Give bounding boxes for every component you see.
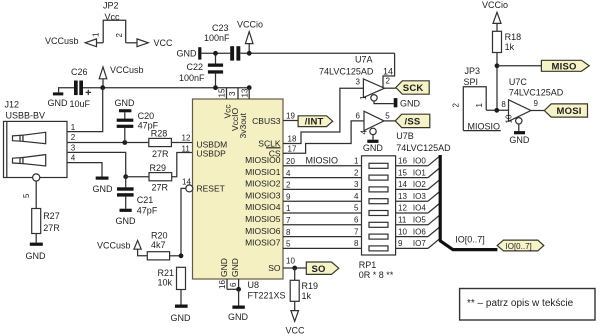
wire to U7A power bbox=[383, 53, 395, 87]
svg-text:IO3: IO3 bbox=[413, 192, 426, 201]
svg-text:9: 9 bbox=[286, 192, 291, 201]
wire SCLK to U7A bbox=[283, 88, 363, 143]
svg-text:2: 2 bbox=[71, 133, 76, 142]
svg-text:** – patrz opis w tekście: ** – patrz opis w tekście bbox=[467, 298, 574, 309]
svg-text:12: 12 bbox=[398, 204, 407, 213]
element 3 bbox=[369, 187, 388, 192]
svg-text:MIOSIO: MIOSIO bbox=[306, 156, 339, 166]
SECTION: C26 / VCCusb bbox=[48, 65, 250, 109]
svg-text:IO[0..7]: IO[0..7] bbox=[506, 242, 532, 251]
svg-text:3: 3 bbox=[356, 78, 361, 87]
svg-text:10: 10 bbox=[286, 257, 295, 266]
svg-text:VCC: VCC bbox=[286, 326, 306, 336]
svg-text:16: 16 bbox=[398, 157, 407, 166]
svg-text:13: 13 bbox=[398, 192, 407, 201]
svg-text:Vcc: Vcc bbox=[105, 12, 121, 22]
svg-text:74LVC125AD: 74LVC125AD bbox=[319, 67, 374, 77]
svg-text:MIOSIO6: MIOSIO6 bbox=[245, 226, 281, 236]
signal tag MOSI bbox=[544, 104, 587, 117]
wire MIOSIO stub bbox=[463, 130, 500, 132]
svg-text:19: 19 bbox=[286, 112, 295, 121]
svg-text:27R: 27R bbox=[152, 149, 169, 159]
svg-text:C22: C22 bbox=[187, 62, 204, 72]
usb plug symbol bottom bbox=[13, 158, 24, 164]
svg-text:8: 8 bbox=[354, 239, 359, 248]
svg-text:VCCusb: VCCusb bbox=[97, 241, 131, 251]
svg-text:15: 15 bbox=[218, 88, 227, 97]
svg-text:1k: 1k bbox=[505, 42, 515, 52]
svg-text:6: 6 bbox=[229, 282, 238, 287]
svg-text:14: 14 bbox=[398, 180, 407, 189]
signal tag MISO bbox=[541, 60, 589, 71]
pin 5 shield bbox=[33, 174, 40, 181]
svg-text:1: 1 bbox=[286, 204, 291, 213]
svg-text:100nF: 100nF bbox=[204, 33, 230, 43]
svg-text:VCCio: VCCio bbox=[237, 20, 263, 30]
svg-text:USBB-BV: USBB-BV bbox=[6, 111, 46, 121]
ground bbox=[175, 305, 188, 308]
svg-text:MIOSIO7: MIOSIO7 bbox=[245, 238, 281, 248]
svg-text:IO1: IO1 bbox=[413, 168, 426, 177]
svg-text:5: 5 bbox=[354, 204, 359, 213]
svg-text:MIOSIO4: MIOSIO4 bbox=[245, 202, 281, 212]
svg-text:1: 1 bbox=[359, 95, 368, 100]
svg-text:4k7: 4k7 bbox=[151, 240, 166, 250]
wire bbox=[172, 153, 193, 177]
svg-text:FT221XS: FT221XS bbox=[248, 291, 286, 301]
svg-text:R29: R29 bbox=[150, 163, 167, 173]
svg-text:7: 7 bbox=[286, 216, 291, 225]
SECTION: right side bbox=[452, 0, 590, 145]
element 4 bbox=[369, 199, 388, 204]
ground bbox=[53, 92, 63, 95]
svg-text:GND: GND bbox=[116, 216, 137, 226]
svg-text:SCLK: SCLK bbox=[258, 138, 281, 148]
svg-text:10: 10 bbox=[505, 114, 514, 123]
svg-text:MOSI: MOSI bbox=[557, 106, 582, 117]
svg-text:C23: C23 bbox=[212, 23, 229, 33]
svg-text:R21: R21 bbox=[158, 268, 175, 278]
svg-text:17: 17 bbox=[288, 145, 297, 154]
svg-text:RESET: RESET bbox=[197, 184, 225, 194]
VCCusb arrow left bbox=[85, 39, 96, 47]
svg-text:74LVC125AD: 74LVC125AD bbox=[509, 88, 564, 98]
SECTION: USB connector J12 bbox=[4, 100, 76, 262]
svg-text:MIOSIO0: MIOSIO0 bbox=[245, 155, 281, 165]
wire bbox=[126, 176, 149, 178]
wire bbox=[171, 142, 192, 144]
wire U7B out bbox=[384, 120, 395, 122]
resistor R21 bbox=[177, 267, 186, 289]
svg-text:JP3: JP3 bbox=[465, 66, 481, 76]
svg-text:3: 3 bbox=[71, 143, 76, 152]
svg-text:6: 6 bbox=[356, 112, 361, 121]
capacitor C22 bbox=[215, 53, 217, 63]
svg-text:3: 3 bbox=[228, 91, 237, 96]
svg-text:GND: GND bbox=[48, 98, 69, 108]
svg-text:0R * 8 **: 0R * 8 ** bbox=[359, 270, 394, 280]
svg-text:7: 7 bbox=[354, 227, 359, 236]
svg-text:14: 14 bbox=[383, 66, 393, 76]
ground bbox=[30, 243, 43, 246]
SECTION: usb data lines bbox=[67, 88, 193, 226]
svg-text:27R: 27R bbox=[152, 183, 169, 193]
bus IO[0..7] bbox=[440, 155, 497, 250]
svg-text:16: 16 bbox=[218, 280, 227, 289]
SECTION: reset chain bbox=[97, 188, 191, 323]
svg-text:100nF: 100nF bbox=[179, 73, 205, 83]
svg-text:2: 2 bbox=[354, 168, 359, 177]
svg-text:C26: C26 bbox=[71, 67, 88, 77]
svg-text:27R: 27R bbox=[43, 223, 60, 233]
svg-text:GND: GND bbox=[26, 251, 47, 261]
resistor network RP1 bbox=[362, 156, 396, 255]
svg-text:C20: C20 bbox=[138, 111, 155, 121]
wire U7C out bbox=[531, 110, 544, 112]
svg-text:47pF: 47pF bbox=[138, 121, 159, 131]
svg-text:2: 2 bbox=[386, 77, 391, 86]
junction bbox=[100, 85, 105, 90]
SECTION: top-left jumper JP2 bbox=[45, 1, 173, 48]
svg-text:5: 5 bbox=[385, 112, 390, 121]
wire jp3 to U7C bbox=[486, 109, 508, 111]
svg-text:MIOSIO: MIOSIO bbox=[468, 122, 501, 132]
VCC arrow right bbox=[137, 39, 148, 47]
svg-text:C21: C21 bbox=[137, 195, 154, 205]
SECTION: chip U8 bbox=[182, 88, 362, 336]
svg-text:9: 9 bbox=[534, 99, 539, 108]
svg-text:JP2: JP2 bbox=[103, 1, 119, 11]
ground bbox=[514, 131, 525, 134]
svg-text:1k: 1k bbox=[302, 291, 312, 301]
pin 15 Vcc bbox=[226, 88, 228, 99]
svg-text:GND: GND bbox=[230, 258, 240, 277]
svg-text:J12: J12 bbox=[5, 100, 20, 110]
IC U8 FT221XS body bbox=[193, 99, 284, 279]
capacitor C26 bbox=[74, 81, 78, 96]
svg-text:8: 8 bbox=[286, 228, 291, 237]
svg-text:3v3out: 3v3out bbox=[238, 112, 248, 138]
enable bubble pin 4 bbox=[370, 128, 376, 134]
MIOSIO wires to RP1 bbox=[283, 165, 362, 167]
svg-text:IO6: IO6 bbox=[413, 227, 426, 236]
svg-text:GND: GND bbox=[363, 143, 384, 153]
power VCC down arrow bbox=[291, 311, 299, 322]
svg-text:1: 1 bbox=[92, 32, 101, 37]
usb plug symbol top bbox=[13, 135, 24, 141]
element 1 bbox=[369, 163, 388, 168]
svg-text:20: 20 bbox=[286, 157, 295, 166]
svg-text:GND: GND bbox=[219, 258, 229, 277]
svg-text:IO4: IO4 bbox=[413, 204, 426, 213]
svg-text:5: 5 bbox=[22, 193, 31, 198]
svg-text:8: 8 bbox=[501, 100, 506, 109]
ground bbox=[232, 306, 244, 309]
wire VCCusb rail bbox=[103, 87, 250, 89]
svg-text:10: 10 bbox=[398, 227, 407, 236]
svg-text:MIOSIO5: MIOSIO5 bbox=[245, 214, 281, 224]
svg-text:USBDP: USBDP bbox=[197, 149, 227, 159]
svg-text:12: 12 bbox=[182, 134, 191, 143]
SECTION: buffers U7A U7B bbox=[283, 55, 451, 154]
enable bubble pin 10 bbox=[516, 118, 522, 124]
svg-text:R27: R27 bbox=[43, 211, 60, 221]
resistor R29 bbox=[149, 173, 172, 181]
svg-text:VCCusb: VCCusb bbox=[45, 36, 79, 46]
svg-text:2: 2 bbox=[286, 181, 291, 190]
wire VCCio rail bbox=[201, 52, 230, 54]
junction bbox=[213, 51, 218, 56]
wire bbox=[97, 42, 104, 44]
signal tag /SS bbox=[395, 114, 430, 127]
svg-text:6: 6 bbox=[354, 216, 359, 225]
svg-text:IO7: IO7 bbox=[413, 239, 426, 248]
svg-text:VCC: VCC bbox=[154, 38, 174, 48]
svg-text:11: 11 bbox=[182, 144, 191, 153]
wire VBUS pin1 bbox=[67, 88, 103, 132]
svg-text:VCCio: VCCio bbox=[482, 0, 508, 10]
svg-text:11: 11 bbox=[398, 216, 407, 225]
svg-text:VCCusb: VCCusb bbox=[110, 65, 144, 75]
capacitor C23 bbox=[230, 46, 234, 60]
svg-text:MIOSIO3: MIOSIO3 bbox=[245, 190, 281, 200]
capacitor C20 bbox=[124, 128, 126, 143]
svg-text:IO5: IO5 bbox=[413, 216, 426, 225]
svg-text:3: 3 bbox=[354, 180, 359, 189]
svg-text:SCK: SCK bbox=[403, 83, 424, 94]
svg-text:13: 13 bbox=[241, 88, 250, 97]
svg-text:4: 4 bbox=[354, 192, 359, 201]
resistor R28 bbox=[149, 138, 172, 146]
svg-text:4: 4 bbox=[286, 169, 291, 178]
svg-text:2: 2 bbox=[452, 103, 461, 108]
wire USBDM bbox=[67, 142, 149, 144]
resistor R19 bbox=[294, 268, 296, 280]
capacitor C21 bbox=[125, 177, 127, 188]
junction bbox=[122, 140, 127, 145]
ground bbox=[198, 47, 201, 59]
jumper JP2 bbox=[103, 20, 126, 43]
svg-text:U7B: U7B bbox=[396, 131, 414, 141]
svg-text:/INT: /INT bbox=[305, 117, 324, 128]
element 7 bbox=[369, 234, 388, 239]
svg-text:IO[0..7]: IO[0..7] bbox=[455, 235, 485, 245]
wire bbox=[496, 53, 498, 111]
svg-text:4: 4 bbox=[71, 154, 76, 163]
ground bbox=[120, 209, 132, 212]
svg-text:SO: SO bbox=[268, 263, 281, 273]
pin 16 GND bbox=[226, 279, 228, 289]
svg-text:2: 2 bbox=[115, 33, 124, 38]
svg-text:IO2: IO2 bbox=[413, 180, 426, 189]
wire reset bbox=[181, 188, 186, 255]
SECTION: RP1 and bus bbox=[354, 155, 544, 280]
element 8 bbox=[369, 246, 388, 251]
svg-text:R19: R19 bbox=[302, 281, 319, 291]
resistor R18 bbox=[493, 31, 502, 52]
svg-text:U8: U8 bbox=[248, 280, 260, 290]
op-amp U7B buffer bbox=[364, 111, 384, 130]
wire U7A out bbox=[385, 87, 396, 89]
svg-text:R18: R18 bbox=[505, 32, 522, 42]
bus tag IO[0..7] bbox=[497, 240, 544, 251]
svg-text:GND: GND bbox=[509, 135, 530, 145]
pin 13 3v3out bbox=[248, 88, 250, 99]
svg-text:SO: SO bbox=[312, 264, 326, 275]
pin 6 GND bbox=[238, 279, 240, 289]
svg-text:74LVC125AD: 74LVC125AD bbox=[396, 143, 451, 153]
svg-text:9: 9 bbox=[398, 239, 403, 248]
ground bbox=[96, 177, 109, 180]
power VCCusb bbox=[102, 79, 104, 88]
wire bbox=[83, 87, 103, 89]
svg-text:MIOSIO2: MIOSIO2 bbox=[245, 179, 281, 189]
svg-text:GND: GND bbox=[93, 184, 114, 194]
svg-text:CBUS3: CBUS3 bbox=[252, 116, 281, 126]
svg-text:1: 1 bbox=[475, 103, 484, 108]
wire bbox=[126, 42, 137, 44]
ground bbox=[394, 98, 398, 107]
svg-text:U7A: U7A bbox=[355, 55, 373, 65]
svg-text:GND: GND bbox=[228, 312, 249, 322]
element 5 bbox=[369, 211, 388, 216]
svg-text:/SS: /SS bbox=[405, 117, 421, 128]
svg-text:1: 1 bbox=[354, 157, 359, 166]
power VCCio bbox=[248, 44, 250, 54]
svg-text:GND: GND bbox=[177, 49, 198, 59]
signal tag SCK bbox=[396, 81, 429, 94]
svg-text:4: 4 bbox=[360, 130, 369, 135]
svg-text:10k: 10k bbox=[158, 278, 173, 288]
svg-text:18: 18 bbox=[288, 134, 297, 143]
ground bbox=[119, 109, 131, 112]
wire usb pin4 to gnd bbox=[67, 163, 102, 177]
svg-text:GND: GND bbox=[400, 99, 421, 109]
SECTION: note box bbox=[460, 289, 595, 321]
element 6 bbox=[369, 222, 388, 227]
svg-text:GND: GND bbox=[115, 98, 136, 108]
enable bubble pin 1 bbox=[371, 95, 377, 101]
svg-text:MISO: MISO bbox=[552, 61, 577, 72]
pin 19 CBUS3 bbox=[283, 120, 298, 122]
svg-text:15: 15 bbox=[398, 168, 407, 177]
wire CS to U7B bbox=[283, 121, 364, 153]
svg-text:47pF: 47pF bbox=[137, 206, 158, 216]
ground bbox=[367, 140, 378, 143]
signal tag SO bbox=[306, 262, 339, 274]
resistor R27 bbox=[32, 209, 41, 234]
junction bbox=[123, 174, 128, 179]
svg-text:GND: GND bbox=[171, 313, 192, 323]
element 2 bbox=[369, 175, 388, 180]
wire USBDP bbox=[67, 152, 126, 176]
svg-text:1: 1 bbox=[71, 123, 76, 132]
junction bbox=[179, 253, 184, 258]
resistor R20 bbox=[147, 252, 169, 260]
wire gnd join bbox=[227, 288, 239, 290]
svg-text:IO0: IO0 bbox=[413, 157, 426, 166]
svg-text:SPI: SPI bbox=[464, 77, 479, 87]
svg-text:MIOSIO1: MIOSIO1 bbox=[245, 167, 281, 177]
SECTION: top caps bbox=[177, 20, 395, 91]
note box bbox=[460, 289, 595, 321]
wire MISO bbox=[497, 65, 541, 67]
signal tag /INT bbox=[298, 116, 333, 127]
svg-text:U7C: U7C bbox=[509, 77, 528, 87]
svg-text:RP1: RP1 bbox=[359, 260, 377, 270]
pin 3 VccIO bbox=[237, 88, 239, 99]
svg-text:5: 5 bbox=[286, 240, 291, 249]
svg-text:10uF: 10uF bbox=[70, 99, 91, 109]
